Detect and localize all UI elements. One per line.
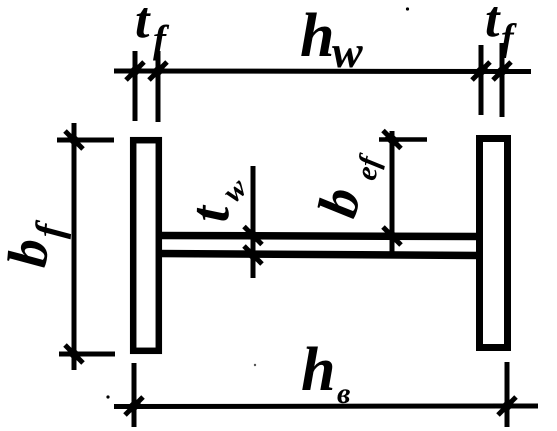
- svg-text:b: b: [0, 236, 61, 269]
- svg-text:h: h: [300, 2, 334, 70]
- svg-text:t: t: [485, 0, 501, 48]
- svg-text:w: w: [332, 26, 363, 77]
- svg-text:h: h: [301, 336, 335, 404]
- svg-text:в: в: [337, 377, 350, 410]
- svg-text:t: t: [135, 0, 151, 49]
